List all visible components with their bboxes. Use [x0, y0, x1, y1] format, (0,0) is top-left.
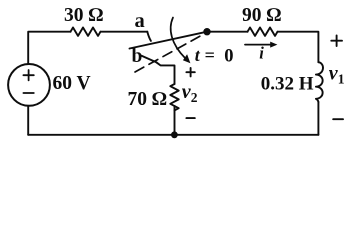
label v2 minus	[186, 117, 194, 119]
svg-text:70 Ω: 70 Ω	[128, 89, 167, 110]
wire from switch pivot to 90ohm	[207, 31, 248, 33]
current arrow i shaft	[245, 44, 272, 46]
wire 90ohm to top-right corner down to inductor	[278, 32, 319, 63]
resistor R 30ohm body	[71, 28, 101, 36]
svg-text:60 V: 60 V	[53, 73, 91, 94]
voltage source minus sign	[23, 92, 33, 94]
switch dashed line to position b	[135, 34, 204, 72]
switch blade (solid, at position a)	[130, 32, 208, 49]
voltage source V 60V circle	[8, 64, 50, 106]
svg-text:30 Ω: 30 Ω	[64, 5, 103, 26]
svg-text:i: i	[259, 44, 264, 63]
svg-text:0: 0	[224, 47, 233, 67]
current arrow i head	[270, 42, 277, 48]
switch pivot node dot	[203, 28, 210, 35]
wire inductor to bottom-right corner	[317, 102, 319, 135]
wire source bottom lead	[27, 106, 29, 135]
resistor R 70ohm body	[170, 84, 178, 110]
wire from 30ohm to switch contact a	[101, 31, 148, 33]
wire top-left segment	[28, 32, 70, 64]
svg-text:a: a	[135, 10, 145, 32]
switch contact a stub	[147, 32, 151, 41]
voltage source plus sign	[23, 70, 33, 80]
svg-text:=: =	[205, 45, 215, 65]
wire bottom	[28, 134, 318, 136]
svg-text:b: b	[132, 46, 143, 67]
svg-text:90 Ω: 90 Ω	[242, 5, 281, 26]
junction node dot bottom	[171, 131, 178, 138]
switch motion arrow arc t=0	[171, 18, 186, 59]
label v2 plus	[186, 68, 194, 76]
wire 70ohm to bottom	[174, 106, 176, 135]
wire from contact b down to 70ohm resistor	[156, 62, 174, 84]
switch motion arrow head	[183, 54, 191, 63]
label v1 plus	[331, 35, 342, 46]
switch contact b stub	[141, 56, 156, 63]
resistor R 90ohm body	[248, 28, 278, 36]
inductor L 0.32H coil	[316, 62, 323, 102]
svg-text:0.32 H: 0.32 H	[261, 74, 314, 95]
label v1 minus	[333, 118, 343, 120]
